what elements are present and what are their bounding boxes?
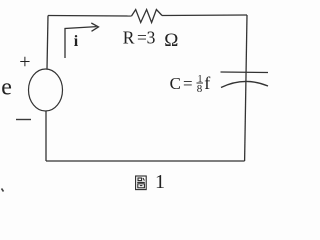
wire bottom: [46, 160, 245, 162]
capacitor C1 top plate: [221, 71, 269, 74]
svg-text:Ω: Ω: [164, 30, 178, 51]
caption glyph inner tick: [140, 185, 143, 187]
svg-text:8: 8: [197, 83, 203, 95]
wire top-left segment: [48, 15, 132, 18]
wire right side: [245, 15, 247, 161]
svg-text:e: e: [1, 75, 12, 101]
wire left lower: [45, 111, 47, 161]
wire top-right segment: [162, 14, 247, 17]
fraction bar: [197, 82, 204, 84]
voltage source e: [29, 69, 63, 111]
resistor R1: [132, 10, 163, 23]
caption glyph inner top box: [138, 178, 142, 181]
svg-text:1: 1: [155, 171, 165, 193]
svg-text:=: =: [137, 28, 147, 48]
minus sign: [16, 119, 31, 121]
wire left upper: [47, 16, 48, 70]
svg-text:i: i: [74, 33, 79, 50]
caption glyph (figure character) outer box: [136, 176, 147, 190]
svg-text:=: =: [183, 74, 193, 93]
svg-text:3: 3: [147, 28, 156, 48]
svg-text:C: C: [170, 74, 181, 93]
svg-text:+: +: [19, 51, 30, 73]
caption glyph middle line: [137, 181, 145, 183]
current arrow bracket: [65, 27, 97, 58]
capacitor C1 bottom plate (curved): [221, 81, 268, 87]
svg-text:R: R: [123, 28, 135, 48]
caption glyph inner top tick: [143, 178, 144, 181]
caption glyph bottom box: [138, 184, 145, 188]
current arrowhead: [91, 23, 98, 31]
stray mark bottom-left: [2, 189, 4, 192]
svg-text:f: f: [204, 73, 210, 93]
